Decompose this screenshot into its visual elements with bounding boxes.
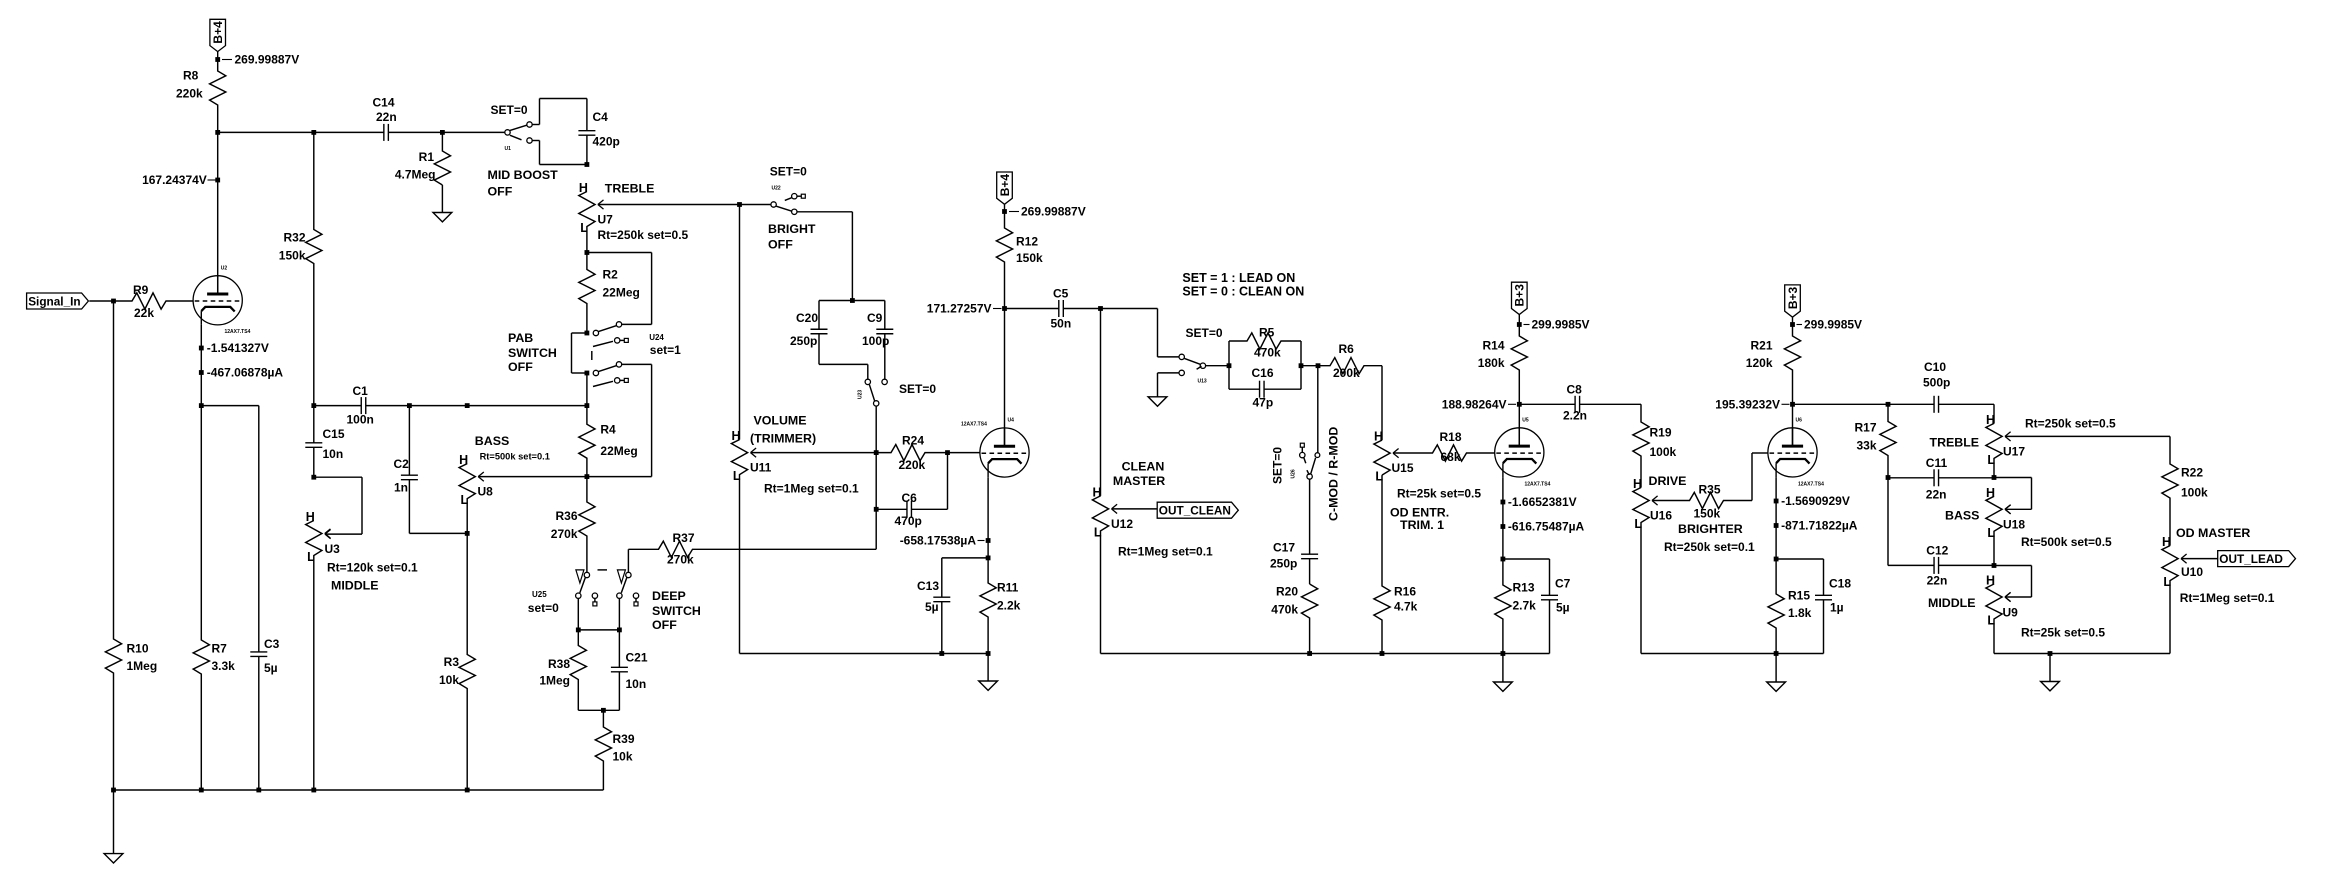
wire: [941, 558, 943, 597]
label Rt=500k set=0.5 (U18): [2021, 535, 2112, 549]
svg-text:12AX7.TS4: 12AX7.TS4: [225, 329, 251, 335]
svg-text:C16: C16: [1252, 366, 1274, 380]
cathode node U5: [1501, 500, 1506, 505]
svg-text:B+4: B+4: [998, 174, 1012, 197]
svg-text:MID BOOST: MID BOOST: [488, 168, 559, 182]
wire: [875, 406, 877, 549]
svg-text:C14: C14: [373, 96, 395, 110]
wire: [200, 325, 202, 406]
svg-text:22Meg: 22Meg: [600, 444, 637, 458]
svg-text:U22: U22: [772, 186, 781, 192]
wire: [1641, 653, 1824, 655]
svg-text:H: H: [2162, 535, 2171, 549]
svg-text:C3: C3: [264, 637, 280, 651]
cathode current node U5: [1501, 524, 1506, 529]
svg-text:167.24374V: 167.24374V: [142, 173, 207, 187]
svg-text:269.99887V: 269.99887V: [1021, 205, 1086, 219]
svg-text:10n: 10n: [323, 447, 344, 461]
svg-text:L: L: [1987, 526, 1995, 540]
resistor R11 2.2k: [980, 558, 1021, 654]
svg-text:-871.71822µA: -871.71822µA: [1781, 518, 1858, 532]
wire: [1005, 308, 1059, 310]
svg-text:R12: R12: [1016, 235, 1038, 249]
svg-text:U11: U11: [750, 461, 772, 475]
label OFF (deep): [652, 618, 677, 632]
node voltage label 188.98264V: [1442, 397, 1516, 411]
svg-text:MIDDLE: MIDDLE: [331, 579, 379, 593]
wire: [851, 212, 853, 301]
label SET=0 (U1): [491, 103, 528, 117]
wire: [819, 363, 868, 365]
node B+4: [215, 57, 220, 62]
junction: [874, 450, 879, 455]
svg-text:R39: R39: [613, 732, 635, 746]
cathode current node U4: [986, 538, 991, 543]
svg-text:H: H: [1092, 485, 1101, 499]
svg-text:22n: 22n: [1926, 488, 1947, 502]
svg-text:-616.75487µA: -616.75487µA: [1508, 519, 1585, 533]
svg-text:250p: 250p: [790, 334, 817, 348]
junction: [1886, 402, 1891, 407]
ground: [1767, 654, 1786, 692]
resistor R36 270k: [551, 477, 595, 573]
wire: [1381, 366, 1383, 440]
svg-text:188.98264V: 188.98264V: [1442, 397, 1507, 411]
svg-text:R8: R8: [183, 69, 199, 83]
junction: [585, 250, 590, 255]
wire: [1776, 558, 1823, 560]
svg-text:SET=0: SET=0: [1271, 447, 1285, 484]
wire: [1264, 388, 1301, 390]
resistor R37 270k: [628, 531, 876, 567]
svg-text:SET=0: SET=0: [770, 165, 807, 179]
wire: [2005, 596, 2032, 598]
resistor R13 2.7k: [1495, 559, 1536, 654]
node B+4 (2): [1002, 209, 1007, 214]
junction: [1774, 651, 1779, 656]
resistor R2 22Meg: [579, 253, 640, 334]
node voltage label 299.9985V: [1797, 318, 1863, 332]
svg-text:150k: 150k: [1694, 507, 1721, 521]
node voltage label -1.541327V: [207, 341, 269, 355]
svg-text:171.27257V: 171.27257V: [927, 302, 992, 316]
wire: [884, 334, 886, 380]
net flag OUT_LEAD: [2218, 551, 2296, 567]
label OFF (mid boost): [488, 185, 513, 199]
wire: [1888, 564, 1934, 566]
svg-text:Rt=250k set=0.1: Rt=250k set=0.1: [1664, 540, 1755, 554]
capacitor C9 100p: [862, 311, 893, 348]
wire: [1792, 404, 1794, 446]
svg-text:R15: R15: [1788, 589, 1810, 603]
svg-text:L: L: [461, 493, 469, 507]
svg-text:R10: R10: [127, 642, 149, 656]
svg-text:C2: C2: [394, 457, 410, 471]
svg-text:2.7k: 2.7k: [1513, 599, 1537, 613]
label OFF (bright): [768, 238, 793, 252]
label (TRIMMER): [750, 432, 816, 446]
svg-text:SWITCH: SWITCH: [508, 346, 557, 360]
cathode current node: [199, 370, 204, 375]
wire: [1751, 453, 1753, 501]
wire: [618, 672, 620, 711]
wire: [1301, 365, 1318, 367]
wire: [388, 131, 442, 133]
wire: [540, 98, 587, 100]
svg-text:5µ: 5µ: [264, 661, 278, 675]
node voltage label 167.24374V: [142, 173, 216, 187]
junction: [1227, 363, 1232, 368]
svg-text:1.8k: 1.8k: [1788, 606, 1812, 620]
svg-text:L: L: [733, 469, 741, 483]
svg-text:SET = 0 : CLEAN ON: SET = 0 : CLEAN ON: [1182, 284, 1304, 298]
label set=1: [650, 343, 681, 357]
svg-text:U16: U16: [1650, 509, 1672, 523]
junction: [311, 403, 316, 408]
svg-text:VOLUME: VOLUME: [754, 413, 807, 427]
wire: [1994, 477, 2032, 479]
svg-text:-467.06878µA: -467.06878µA: [207, 366, 284, 380]
capacitor C14 22n: [373, 96, 397, 141]
junction: [1992, 563, 1997, 568]
wire: [1309, 559, 1311, 584]
wire: [797, 211, 852, 213]
svg-text:OFF: OFF: [652, 618, 677, 632]
svg-text:299.9985V: 299.9985V: [1532, 318, 1590, 332]
label CLEAN: [1122, 459, 1165, 473]
junction: [311, 788, 316, 793]
svg-text:5µ: 5µ: [1556, 601, 1570, 615]
potentiometer U17: [1986, 413, 2025, 478]
svg-text:C18: C18: [1829, 577, 1851, 591]
svg-text:OFF: OFF: [508, 360, 533, 374]
wire: [1112, 508, 1158, 510]
svg-text:120k: 120k: [1746, 356, 1773, 370]
wire: [540, 164, 587, 166]
junction: [215, 130, 220, 135]
resistor R12 150k: [996, 212, 1043, 309]
node voltage label 269.99887V: [1009, 205, 1086, 219]
label TREBLE (lead): [1930, 436, 1980, 450]
label VOLUME: [754, 413, 807, 427]
wire: [1519, 403, 1575, 405]
svg-text:U7: U7: [598, 213, 614, 227]
capacitor C16 47p: [1252, 366, 1274, 410]
junction: [1790, 402, 1795, 407]
ground: [1494, 654, 1513, 692]
wire: [409, 405, 467, 407]
svg-text:L: L: [1634, 517, 1642, 531]
svg-text:R1: R1: [419, 150, 435, 164]
ground: [979, 654, 998, 691]
svg-text:U9: U9: [2003, 606, 2019, 620]
svg-text:OFF: OFF: [488, 185, 513, 199]
potentiometer U12: [1092, 485, 1213, 653]
resistor R7 3.3k: [193, 406, 235, 790]
capacitor C8 2.2n: [1563, 383, 1587, 423]
wire: [578, 709, 619, 711]
svg-text:C10: C10: [1924, 360, 1946, 374]
svg-text:420p: 420p: [593, 135, 620, 149]
svg-text:R14: R14: [1482, 339, 1504, 353]
svg-text:SWITCH: SWITCH: [652, 604, 701, 618]
svg-text:R13: R13: [1513, 581, 1535, 595]
wire: [884, 301, 886, 330]
svg-text:H: H: [459, 453, 468, 467]
wire: [739, 205, 741, 440]
svg-text:R24: R24: [902, 434, 924, 448]
resistor R22 100k: [2162, 436, 2208, 545]
svg-text:U6: U6: [1796, 418, 1803, 424]
wire: [1503, 558, 1550, 560]
svg-text:R20: R20: [1276, 585, 1298, 599]
junction: [199, 403, 204, 408]
wire: [2005, 508, 2032, 510]
svg-text:OD MASTER: OD MASTER: [2176, 526, 2250, 540]
svg-text:H: H: [1633, 477, 1642, 491]
svg-text:U15: U15: [1392, 461, 1414, 475]
junction: [986, 556, 991, 561]
junction: [585, 474, 590, 479]
svg-text:270k: 270k: [667, 553, 694, 567]
wire: [539, 99, 541, 125]
svg-text:3.3k: 3.3k: [212, 659, 236, 673]
capacitor C5 50n: [1051, 287, 1072, 331]
capacitor C18 1µ: [1815, 577, 1851, 615]
svg-text:Rt=25k set=0.5: Rt=25k set=0.5: [2021, 626, 2105, 640]
label BASS: [475, 434, 509, 448]
wire: [442, 131, 504, 133]
capacitor C15 10n: [305, 427, 345, 461]
svg-text:R35: R35: [1699, 483, 1721, 497]
wire: [89, 300, 113, 302]
label MIDDLE: [331, 579, 379, 593]
resistor R15 1.8k: [1768, 559, 1812, 654]
svg-text:R36: R36: [555, 509, 577, 523]
wire: [876, 508, 907, 510]
wire: [1994, 653, 2170, 655]
wire: [572, 372, 587, 374]
junction: [199, 788, 204, 793]
label Rt=25k set=0.5 (U9): [2021, 626, 2105, 640]
wire: [409, 532, 467, 534]
potentiometer U16: [1633, 477, 1672, 654]
svg-text:SET=0: SET=0: [899, 382, 936, 396]
label MIDDLE (lead): [1928, 596, 1976, 610]
wire: [867, 364, 869, 379]
potentiometer U9: [1986, 574, 2018, 654]
wire: [2005, 435, 2170, 437]
label SET=0 (U26): [1271, 447, 1285, 484]
potentiometer U15: [1374, 430, 1481, 501]
svg-text:12AX7.TS4: 12AX7.TS4: [961, 422, 987, 428]
wire: [1157, 309, 1159, 357]
potentiometer U7: [579, 181, 689, 253]
label TRIM. 1: [1400, 518, 1444, 532]
svg-text:270k: 270k: [551, 527, 578, 541]
svg-text:Rt=250k set=0.5: Rt=250k set=0.5: [598, 228, 689, 242]
switch U26: [1291, 443, 1320, 479]
node voltage label -1.6652381V: [1508, 495, 1577, 509]
svg-text:470k: 470k: [1254, 346, 1281, 360]
wire: [1063, 308, 1100, 310]
wire: [217, 132, 219, 293]
junction: [1098, 306, 1103, 311]
svg-text:C15: C15: [323, 427, 345, 441]
wire: [1793, 403, 1889, 405]
power flag B+3: [1785, 285, 1801, 325]
junction: [1501, 557, 1506, 562]
wire: [578, 629, 619, 631]
potentiometer U8: [459, 453, 493, 533]
capacitor C7 5µ: [1541, 577, 1571, 615]
svg-text:1Meg: 1Meg: [127, 659, 158, 673]
wire: [586, 135, 588, 164]
svg-text:SET=0: SET=0: [1186, 326, 1223, 340]
wire: [1101, 653, 1550, 655]
junction: [465, 403, 470, 408]
svg-text:C4: C4: [593, 110, 609, 124]
cathode node U6: [1774, 499, 1779, 504]
triode U6 12AX7: [1768, 418, 1824, 488]
svg-text:U18: U18: [2003, 518, 2025, 532]
junction: [1299, 363, 1304, 368]
capacitor C20 250p: [790, 311, 828, 348]
label SET=0 (U13): [1186, 326, 1223, 340]
svg-text:-1.541327V: -1.541327V: [207, 341, 269, 355]
svg-text:Rt=500k set=0.5: Rt=500k set=0.5: [2021, 535, 2112, 549]
svg-text:4.7k: 4.7k: [1394, 600, 1418, 614]
resistor R35 150k: [1652, 483, 1752, 521]
wire: [1939, 403, 1994, 405]
svg-text:Rt=1Meg set=0.1: Rt=1Meg set=0.1: [1118, 545, 1213, 559]
net flag OUT_CLEAN: [1157, 502, 1238, 518]
triode U5 12AX7: [1495, 418, 1551, 488]
svg-text:B+4: B+4: [211, 21, 225, 44]
wire: [314, 476, 362, 478]
junction: [585, 371, 590, 376]
wire: [651, 364, 653, 476]
svg-text:150k: 150k: [279, 249, 306, 263]
wire: [366, 405, 410, 407]
junction: [1380, 651, 1385, 656]
svg-text:470k: 470k: [1271, 603, 1298, 617]
wire: [408, 406, 410, 476]
label OFF (PAB): [508, 360, 533, 374]
svg-text:1µ: 1µ: [1830, 601, 1844, 615]
wire: [622, 363, 652, 365]
svg-text:R19: R19: [1650, 426, 1672, 440]
svg-text:R2: R2: [603, 268, 619, 282]
svg-text:10k: 10k: [439, 673, 459, 687]
capacitor C13 5µ: [917, 579, 950, 614]
svg-text:R3: R3: [444, 655, 460, 669]
svg-text:C21: C21: [626, 651, 648, 665]
triode U2 12AX7: [193, 266, 250, 336]
svg-text:U12: U12: [1111, 517, 1133, 531]
svg-text:R21: R21: [1750, 339, 1772, 353]
wire: [1939, 477, 1994, 479]
junction: [2048, 651, 2053, 656]
svg-text:-1.5690929V: -1.5690929V: [1781, 494, 1850, 508]
wire: [987, 477, 989, 558]
wire: [1549, 559, 1551, 595]
svg-text:BRIGHT: BRIGHT: [768, 222, 816, 236]
resistor R24 220k: [876, 434, 947, 473]
svg-text:22Meg: 22Meg: [603, 286, 640, 300]
svg-text:22n: 22n: [1927, 573, 1948, 587]
capacitor C21 10n: [611, 651, 648, 692]
label DRIVE: [1649, 474, 1687, 488]
junction: [874, 507, 879, 512]
wire: [911, 508, 947, 510]
svg-text:500p: 500p: [1923, 376, 1950, 390]
svg-text:BASS: BASS: [475, 434, 509, 448]
switch body mark: [591, 351, 593, 360]
ground: [1148, 397, 1167, 406]
svg-text:Rt=250k set=0.5: Rt=250k set=0.5: [2025, 417, 2116, 431]
svg-text:MASTER: MASTER: [1113, 474, 1165, 488]
svg-text:220k: 220k: [176, 87, 203, 101]
junction: [1307, 651, 1312, 656]
wire: [1994, 565, 2032, 567]
svg-text:5µ: 5µ: [925, 600, 939, 614]
svg-text:250p: 250p: [1270, 557, 1297, 571]
wire: [1752, 452, 1768, 454]
junction: [256, 788, 261, 793]
svg-text:R11: R11: [997, 581, 1019, 595]
svg-text:R37: R37: [673, 531, 695, 545]
junction: [465, 531, 470, 536]
wire: [598, 204, 740, 206]
junction: [407, 403, 412, 408]
svg-text:R32: R32: [283, 231, 305, 245]
svg-text:R9: R9: [133, 283, 149, 297]
wire: [408, 480, 410, 534]
junction: [737, 202, 742, 207]
svg-text:U26: U26: [1291, 469, 1297, 478]
wire: [740, 653, 989, 655]
wire: [467, 405, 587, 407]
svg-text:22k: 22k: [134, 306, 154, 320]
svg-text:H: H: [306, 510, 315, 524]
node 167V: [215, 178, 220, 183]
wire: [325, 533, 362, 535]
switch U24a (PAB upper): [593, 322, 628, 347]
cathode current node U6: [1774, 523, 1779, 528]
svg-text:2.2k: 2.2k: [997, 599, 1021, 613]
svg-text:L: L: [580, 221, 588, 235]
label SWITCH (deep): [652, 604, 701, 618]
ground: [2041, 654, 2060, 691]
svg-text:L: L: [2163, 575, 2171, 589]
svg-text:100k: 100k: [1650, 445, 1677, 459]
label SWITCH: [508, 346, 557, 360]
wire: [1309, 479, 1311, 554]
wire: [201, 405, 258, 407]
resistor R18 68k: [1393, 430, 1495, 464]
switch U1 MID BOOST: [505, 122, 540, 152]
ground: [104, 790, 123, 863]
svg-text:C9: C9: [867, 311, 883, 325]
wire: [587, 476, 652, 478]
svg-text:-1.6652381V: -1.6652381V: [1508, 495, 1577, 509]
wire: [942, 557, 988, 559]
label DEEP: [652, 589, 686, 603]
label set=0 (U25): [528, 601, 559, 615]
wire: [539, 141, 541, 165]
svg-text:U10: U10: [2181, 565, 2203, 579]
